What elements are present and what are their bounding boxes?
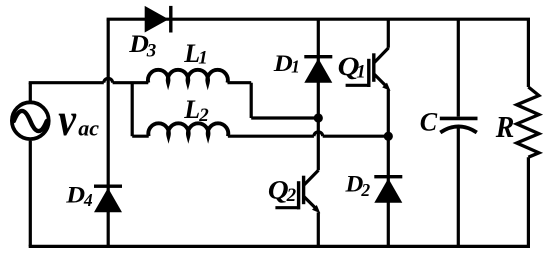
svg-text:v: v (58, 94, 76, 145)
svg-text:3: 3 (146, 40, 157, 61)
svg-text:1: 1 (356, 62, 366, 83)
svg-text:2: 2 (198, 105, 209, 126)
svg-text:L: L (183, 95, 200, 124)
svg-text:R: R (495, 111, 515, 145)
svg-text:ac: ac (78, 116, 99, 141)
svg-text:1: 1 (291, 57, 300, 77)
svg-text:1: 1 (198, 48, 208, 69)
svg-text:2: 2 (360, 180, 370, 200)
svg-text:D: D (65, 183, 85, 209)
svg-text:D: D (128, 29, 149, 58)
svg-text:2: 2 (286, 185, 297, 206)
svg-text:D: D (273, 51, 293, 76)
svg-text:C: C (420, 107, 438, 136)
svg-text:4: 4 (83, 190, 93, 210)
